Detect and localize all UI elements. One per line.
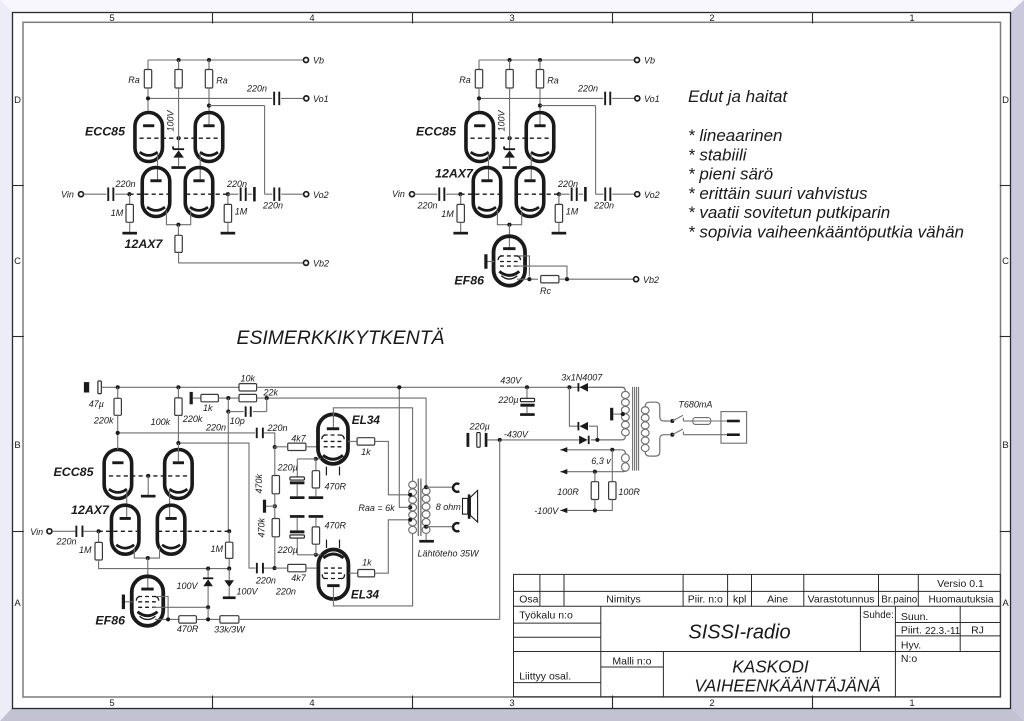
svg-text:Malli n:o: Malli n:o (612, 656, 651, 668)
wire coupling to upper grid node (264, 433, 275, 447)
switch bottom (670, 433, 674, 437)
svg-text:220n: 220n (577, 84, 598, 94)
capacitor 220n Vo1 (273, 92, 275, 106)
svg-text:VAIHEENKÄÄNTÄJÄNÄ: VAIHEENKÄÄNTÄJÄNÄ (694, 677, 880, 696)
resistor 1M left (129, 194, 131, 204)
svg-text:Vo1: Vo1 (313, 94, 329, 104)
fuse T680mA (693, 418, 711, 425)
svg-text:3: 3 (509, 698, 514, 709)
svg-text:Työkalu n:o: Työkalu n:o (519, 610, 573, 622)
svg-text:Osa: Osa (519, 594, 538, 606)
svg-text:Br.paino: Br.paino (881, 595, 918, 606)
triode 12AX7 example left (111, 505, 139, 554)
wire cathode upper EL34 (316, 458, 321, 460)
svg-text:D: D (14, 95, 21, 106)
resistor 1M example left (98, 531, 100, 542)
svg-text:Vb: Vb (644, 56, 655, 66)
wire left anode to Vo1 (478, 88, 480, 113)
wire tail join right (509, 211, 521, 225)
triode ECC85 upper right (526, 113, 554, 162)
svg-text:100V: 100V (237, 587, 259, 597)
wire tail to EF86 anode (508, 225, 510, 248)
resistor Ra right (539, 60, 541, 70)
grid termination bar EF86 example (122, 595, 125, 610)
resistor 33k/3W (220, 616, 239, 623)
svg-text:220n: 220n (275, 587, 296, 597)
svg-text:Vin: Vin (61, 190, 74, 200)
triode 12AX7 lower right (185, 168, 213, 217)
wire D1 to cathode line (207, 607, 209, 619)
wire cathode lower EL34 (316, 554, 321, 556)
resistor 100R left (594, 472, 596, 482)
wire -430V to EF86 bias (499, 440, 501, 620)
svg-text:1M: 1M (211, 544, 224, 554)
wire middle resistor to grid node (509, 88, 511, 149)
grid termination bar EF86 (484, 254, 487, 269)
resistor 10k series (239, 384, 257, 391)
terminal Vin (410, 192, 415, 197)
svg-text:220µ: 220µ (277, 463, 298, 473)
wire cap to Vo1 terminal (281, 97, 304, 99)
terminal Vo1 (304, 96, 309, 101)
transformer mains primary winding (641, 407, 649, 414)
wire right anode line (178, 443, 255, 568)
svg-text:ESIMERKKIKYTKENTÄ: ESIMERKKIKYTKENTÄ (237, 327, 445, 349)
resistor tail (177, 225, 179, 236)
ground 1M right (558, 222, 560, 232)
svg-text:Nimitys: Nimitys (606, 594, 640, 606)
capacitor 47u input of rail (84, 382, 89, 392)
svg-text:Ra: Ra (128, 75, 140, 85)
svg-text:8 ohm: 8 ohm (436, 502, 462, 512)
wire grid row ECC85 (140, 137, 219, 139)
svg-text:Vb: Vb (313, 56, 324, 66)
capacitor 220n lower coupling (256, 563, 258, 574)
zener diode 100V with ground bar (173, 146, 184, 149)
wire g3 to cathode line (156, 597, 168, 620)
resistor 1M right (558, 194, 560, 204)
terminal Vb (304, 58, 309, 63)
mains plug (721, 412, 747, 444)
wire 1k to transformer tap lower (375, 520, 411, 573)
wire secondary ground stub (425, 534, 427, 540)
wire cascode link right (530, 154, 532, 182)
svg-text:220µ: 220µ (497, 395, 518, 405)
svg-text:Hyv.: Hyv. (901, 639, 921, 651)
ground 1M right (227, 222, 229, 232)
svg-text:Suhde:: Suhde: (863, 610, 894, 621)
triode 12AX7 lower right (516, 168, 544, 217)
resistor 1k feedback (201, 394, 219, 401)
resistor 1M left (460, 194, 462, 204)
svg-text:D: D (1002, 95, 1009, 106)
pentode EL34 upper (318, 414, 348, 464)
capacitor 220n Vo1 (604, 92, 606, 106)
svg-text:Vin: Vin (392, 189, 405, 199)
resistor Ra right (208, 60, 210, 70)
wire grid row 12AX7 right (517, 193, 559, 195)
wire g2 to output node (513, 266, 567, 279)
wire 100k to right anode line (177, 415, 179, 443)
wire anode upper EL34 (333, 408, 412, 481)
svg-text:4k7: 4k7 (291, 433, 307, 443)
svg-text:2: 2 (709, 13, 714, 24)
wire mains bottom lead (645, 435, 670, 456)
speaker 8 ohm (463, 498, 468, 514)
wire heater top (560, 450, 625, 454)
wire cathode out example (155, 618, 179, 620)
wire -430V into winding (591, 436, 626, 440)
svg-text:Lähtöteho 35W: Lähtöteho 35W (417, 549, 480, 559)
pentode EL34 lower (318, 550, 348, 600)
resistor 4k7 upper (288, 443, 306, 450)
ground 1M left (129, 222, 131, 232)
svg-text:5: 5 (109, 698, 114, 709)
svg-text:Vb2: Vb2 (643, 275, 659, 285)
wire 1M right bottom (228, 558, 230, 568)
wire 33k to -430V (239, 618, 500, 620)
svg-text:A: A (14, 598, 21, 609)
wire 470R to 33k (196, 618, 220, 620)
triode ECC85 upper right (195, 113, 223, 162)
svg-text:220n: 220n (262, 201, 283, 211)
wire cap to Vo2 terminal (612, 193, 635, 195)
diode rectifier bottom (579, 436, 588, 445)
wire anode lead left (117, 433, 119, 450)
svg-text:A: A (1002, 598, 1009, 609)
text block Edut ja haitat (688, 87, 964, 242)
termination bar feedback (190, 392, 193, 404)
svg-text:430V: 430V (500, 375, 522, 385)
svg-text:5: 5 (109, 13, 114, 24)
transformer HV winding (622, 391, 630, 398)
wire grid row ECC85 (471, 137, 550, 139)
diode rectifier top (567, 385, 571, 389)
svg-text:Raa = 6k: Raa = 6k (358, 503, 395, 513)
wire 1k to transformer tap upper (375, 441, 411, 494)
capacitor 220u 430V rail (525, 385, 529, 389)
wire cascode link left (488, 154, 490, 182)
wire cap to Vo2 terminal (281, 193, 304, 195)
svg-text:12AX7: 12AX7 (435, 167, 474, 181)
resistor 470k upper (274, 447, 276, 475)
svg-text:220n: 220n (114, 179, 135, 189)
wire right anode branch to Vo2 (539, 88, 541, 126)
svg-text:1M: 1M (111, 208, 124, 218)
wire cap to grid example (84, 530, 100, 532)
svg-text:22.3.-11: 22.3.-11 (925, 626, 960, 637)
wire mains top lead (645, 402, 670, 421)
wire grid row 12AX7 example right (158, 530, 229, 532)
svg-text:1k: 1k (203, 403, 213, 413)
svg-text:470k: 470k (256, 517, 266, 537)
wire secondary to speaker bottom (426, 526, 453, 528)
wire middle resistor to grid node (178, 88, 180, 149)
svg-text:Edut ja haitat: Edut ja haitat (688, 87, 789, 106)
wire 1k to 22k (218, 397, 239, 399)
ground 1M left (460, 222, 462, 232)
triode 12AX7 lower left (142, 168, 170, 217)
wire 430V rail right part (257, 386, 625, 388)
svg-text:ECC85: ECC85 (85, 125, 126, 139)
svg-text:T680mA: T680mA (678, 399, 712, 409)
svg-text:Varastotunnus: Varastotunnus (808, 594, 875, 606)
svg-text:33k/3W: 33k/3W (214, 625, 246, 635)
svg-text:Ra: Ra (547, 76, 559, 86)
wire cascode link right (199, 154, 201, 182)
svg-text:1k: 1k (361, 447, 371, 457)
svg-text:220n: 220n (266, 423, 287, 433)
wire to series caps (228, 193, 239, 195)
svg-text:ECC85: ECC85 (54, 465, 95, 479)
diode 100V left (206, 567, 210, 571)
capacitor 220n input (438, 187, 440, 201)
capacitor 220n input (107, 187, 109, 201)
wire input cap to grid (446, 193, 461, 195)
resistor 470k lower (272, 519, 279, 537)
wire input cap to grid (115, 193, 130, 195)
ground mid grid (147, 476, 149, 495)
resistor anode middle (509, 60, 511, 70)
resistor anode middle (178, 60, 180, 70)
svg-text:4k7: 4k7 (291, 573, 307, 583)
wire right anode branch to Vo2 (208, 88, 210, 126)
terminal Vin example (47, 529, 52, 534)
capacitor 220u upper cathode (296, 459, 298, 477)
termination bar bias (263, 500, 266, 513)
wire fuse to plug (711, 420, 727, 422)
wire cascode links example (126, 491, 128, 519)
svg-text:10k: 10k (241, 373, 256, 383)
wire anode lead right (177, 443, 179, 461)
svg-text:B: B (14, 440, 20, 451)
wire g3 to cathode node (518, 256, 530, 277)
svg-text:B: B (1002, 440, 1008, 451)
svg-text:Ra: Ra (216, 76, 228, 86)
resistor 470R upper cathode (315, 459, 317, 471)
junction secondary top (424, 485, 428, 489)
diode rectifier mid (569, 387, 577, 426)
wire to series caps (559, 193, 570, 195)
wire cascode link left (157, 154, 159, 182)
wire tail to EF86 (147, 558, 149, 589)
wire coupling to lower grid node (264, 567, 275, 569)
junction dots on Vb rail (508, 58, 512, 62)
wire 22k to transformer feedback (257, 398, 427, 487)
speaker terminal hooks (453, 484, 459, 492)
svg-text:1M: 1M (235, 207, 248, 217)
transformer secondary (422, 487, 430, 494)
resistor Ra left (147, 60, 149, 70)
wire tail join right (178, 211, 190, 225)
svg-text:* sopivia vaiheenkääntöputkia: * sopivia vaiheenkääntöputkia vähän (688, 223, 964, 242)
wire Rc to Vb2 (559, 278, 634, 280)
junction dots rail (116, 385, 120, 389)
capacitor 220n series pair (240, 187, 242, 201)
transformer mains core (632, 387, 634, 471)
resistor 1k upper (357, 438, 375, 445)
wire Vb supply rail (479, 59, 635, 61)
wire tail to Vb2 (179, 252, 304, 263)
svg-text:1: 1 (909, 13, 914, 24)
svg-text:EF86: EF86 (454, 274, 484, 288)
svg-text:220n: 220n (55, 537, 76, 547)
svg-text:100R: 100R (557, 487, 579, 497)
svg-text:N:o: N:o (901, 653, 918, 665)
wire Vin to input cap (84, 193, 107, 195)
svg-text:470R: 470R (177, 624, 199, 634)
diode 100V right (228, 569, 230, 581)
switch top (670, 419, 674, 423)
HV center tap bar (610, 408, 613, 421)
wire left anode to Vo1 (147, 88, 149, 113)
svg-text:EL34: EL34 (352, 413, 381, 427)
svg-text:1M: 1M (441, 209, 454, 219)
svg-text:220n: 220n (226, 179, 247, 189)
svg-text:Piirt.: Piirt. (901, 624, 922, 636)
triode 12AX7 example right (157, 505, 185, 554)
triode ECC85 upper left (135, 113, 163, 162)
resistor 220k left anode load (117, 387, 119, 398)
resistor 1M right (227, 194, 229, 204)
wire g2 to diode node (153, 606, 209, 608)
wire tail example (134, 548, 148, 558)
svg-text:Suun.: Suun. (901, 611, 928, 623)
terminal Vo2 (635, 192, 640, 197)
resistor 470R lower cathode (315, 544, 317, 555)
wire Vin to cap example (52, 530, 75, 532)
svg-text:1M: 1M (79, 545, 92, 555)
svg-text:22k: 22k (263, 387, 279, 397)
terminal Vb2 (304, 260, 309, 265)
wire left anode line (118, 432, 256, 434)
wire grid row ECC85 example (109, 475, 188, 477)
svg-text:EL34: EL34 (351, 587, 380, 601)
svg-text:* stabiili: * stabiili (688, 145, 748, 164)
wire secondary to speaker top (426, 486, 453, 488)
wire -100V (594, 500, 596, 511)
wire heater bottom (560, 470, 625, 472)
wire 1M bottom to bias line (99, 560, 230, 569)
transformer core (417, 479, 419, 537)
svg-text:1M: 1M (566, 207, 579, 217)
wire grid row 12AX7 right (186, 193, 228, 195)
zener diode 100V with ground bar (504, 146, 515, 149)
svg-text:47µ: 47µ (89, 399, 104, 409)
capacitor 220n series pair (571, 187, 573, 201)
wire cathode out (517, 278, 538, 280)
wire tail join left (497, 211, 509, 225)
svg-text:1: 1 (909, 698, 914, 709)
junction upper grid node (273, 445, 277, 449)
resistor 470R EF86 (179, 616, 197, 623)
resistor Rc (541, 276, 559, 283)
wire cap to Vo1 terminal (612, 97, 635, 99)
transformer output primary (409, 481, 417, 488)
capacitor 220n input example (75, 526, 77, 537)
wire Vb supply rail (148, 59, 304, 61)
svg-text:100R: 100R (618, 487, 640, 497)
wire tail join left (166, 211, 178, 225)
svg-text:Versio 0.1: Versio 0.1 (937, 578, 984, 590)
resistor 1M example right (228, 531, 230, 542)
svg-text:100V: 100V (166, 109, 176, 131)
junction bias node (273, 504, 277, 508)
svg-text:10p: 10p (230, 416, 245, 426)
svg-text:4: 4 (309, 13, 314, 24)
capacitor 220n upper coupling (256, 428, 258, 439)
wire grid row 12AX7 example left (99, 530, 137, 532)
svg-text:Vb2: Vb2 (313, 259, 329, 269)
terminal Vo2 (304, 192, 309, 197)
svg-text:Vo1: Vo1 (644, 94, 660, 104)
svg-text:220n: 220n (246, 84, 267, 94)
svg-text:Huomautuksia: Huomautuksia (928, 595, 993, 606)
capacitor 220u lower cathode (296, 538, 298, 555)
svg-text:* lineaarinen: * lineaarinen (688, 126, 783, 145)
capacitor plate termination (253, 187, 256, 201)
triode ECC85 example right (165, 450, 193, 499)
svg-text:* vaatii sovitetun putkiparin: * vaatii sovitetun putkiparin (688, 203, 890, 222)
junction tail (507, 223, 511, 227)
svg-text:470R: 470R (325, 482, 347, 492)
svg-text:6,3 v: 6,3 v (591, 456, 611, 466)
svg-text:KASKODI: KASKODI (732, 657, 809, 677)
svg-text:220k: 220k (93, 416, 114, 426)
pentode EF86 example (132, 576, 164, 626)
triode ECC85 upper left (466, 113, 494, 162)
svg-text:kpl: kpl (733, 594, 746, 606)
terminal Vb2 right (634, 277, 639, 282)
resistor 22k feedback (239, 394, 257, 401)
wire center tap to 430V (399, 387, 410, 507)
resistor 4k7 lower (288, 564, 306, 571)
svg-text:12AX7: 12AX7 (71, 503, 110, 517)
svg-text:470k: 470k (254, 473, 264, 493)
svg-text:Vo2: Vo2 (313, 190, 329, 200)
svg-text:12AX7: 12AX7 (125, 237, 164, 251)
junction tail (176, 223, 180, 227)
svg-text:100k: 100k (151, 417, 171, 427)
wire 470k to lower grid node (274, 537, 276, 568)
svg-text:-100V: -100V (534, 506, 559, 516)
svg-text:RJ: RJ (971, 624, 984, 636)
svg-text:220k: 220k (182, 414, 203, 424)
svg-text:Vo2: Vo2 (644, 190, 660, 200)
svg-text:ECC85: ECC85 (416, 125, 457, 139)
wire Vin to input cap (415, 193, 438, 195)
resistor 1k lower (358, 570, 375, 577)
terminal Vin (79, 192, 84, 197)
svg-text:220n: 220n (255, 575, 276, 585)
svg-text:470R: 470R (325, 520, 347, 530)
svg-text:Vin: Vin (30, 527, 43, 537)
wire 10p node to splitter grid (227, 412, 229, 532)
svg-text:Aine: Aine (767, 594, 788, 606)
transformer heater winding (622, 454, 630, 462)
svg-text:Piir. n:o: Piir. n:o (688, 594, 723, 606)
svg-text:* erittäin suuri vahvistus: * erittäin suuri vahvistus (688, 184, 868, 203)
primary taps (408, 493, 412, 497)
resistor 100k right anode load (177, 387, 179, 398)
svg-text:220µ: 220µ (469, 421, 490, 431)
wire grid row 12AX7 left (129, 193, 168, 195)
svg-text:EF86: EF86 (95, 614, 125, 628)
wire 430V rail left part (101, 386, 239, 388)
svg-text:-430V: -430V (504, 429, 529, 439)
svg-text:4: 4 (309, 698, 314, 709)
svg-text:220n: 220n (593, 201, 614, 211)
